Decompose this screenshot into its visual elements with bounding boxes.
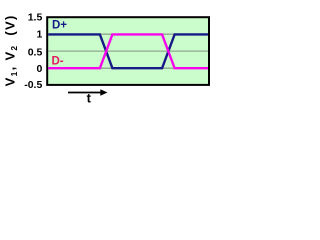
svg-text:t: t [87, 91, 92, 106]
svg-text:-0.5: -0.5 [24, 79, 42, 91]
svg-text:V1, V2 (V): V1, V2 (V) [3, 14, 19, 86]
svg-text:1.5: 1.5 [28, 12, 43, 24]
svg-text:1: 1 [36, 29, 42, 41]
svg-text:D+: D+ [52, 20, 67, 32]
svg-text:0: 0 [36, 63, 42, 75]
svg-text:D-: D- [52, 56, 64, 68]
svg-text:0.5: 0.5 [28, 46, 43, 58]
